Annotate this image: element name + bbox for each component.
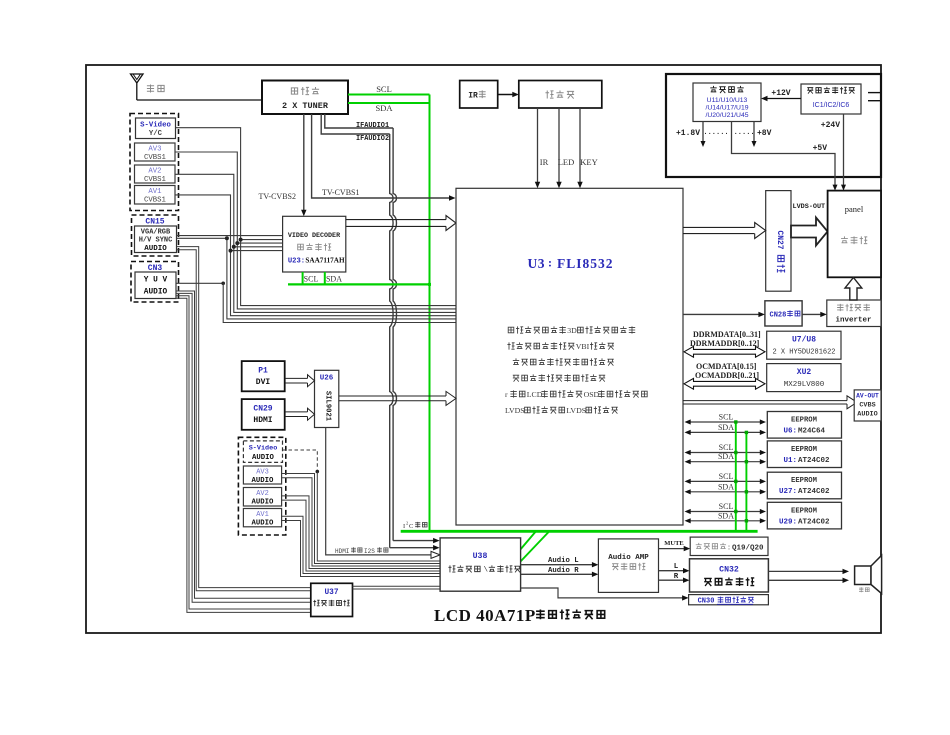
receiver U26 SIL9021 — [315, 370, 339, 427]
wire SCL U29: — [685, 509, 767, 514]
svg-text:AUDIO: AUDIO — [857, 411, 877, 419]
wire KEY to U3 — [577, 108, 582, 188]
label IFAUDIO2 — [356, 135, 389, 143]
svg-text:IR: IR — [540, 157, 549, 167]
U3 description line1 — [508, 326, 635, 335]
title LCD 40A71P 整机流程框图 — [434, 606, 605, 625]
svg-text:EEPROM: EEPROM — [791, 507, 817, 515]
connector CN27 LVDS — [766, 191, 791, 292]
front control board 前控板 — [519, 81, 602, 109]
svg-text:AV2: AV2 — [148, 168, 161, 176]
wire TV-CVBS1 to U3 — [312, 114, 456, 201]
wire HDMI I2S U26 to U38 — [326, 428, 440, 559]
green diagonal SCL to U38 — [521, 532, 536, 549]
wire S-Video Y/C to decoder and U3 — [176, 128, 457, 306]
label SCL U6: — [719, 413, 734, 422]
label +1.8V — [676, 129, 700, 138]
AC input stubs — [868, 93, 881, 101]
label +8V — [757, 129, 772, 138]
svg-text:Q19/Q20: Q19/Q20 — [732, 545, 764, 553]
audio input group dashed box — [238, 437, 285, 535]
svg-text:MUTE: MUTE — [664, 540, 684, 547]
svg-text:AV-OUT: AV-OUT — [856, 393, 879, 400]
label SDA U6: — [718, 423, 734, 432]
svg-text:CVBS1: CVBS1 — [144, 154, 167, 162]
label LED — [558, 157, 575, 167]
svg-text:......: ...... — [703, 129, 728, 137]
wire CN3 audio 4 to U37 — [176, 298, 311, 612]
label I2C bus — [403, 521, 427, 531]
svg-text:CN32: CN32 — [719, 566, 739, 575]
svg-text:TV-CVBS2: TV-CVBS2 — [259, 192, 297, 201]
svg-text:S-Video: S-Video — [249, 445, 278, 453]
antenna symbol 天线 — [131, 74, 165, 100]
voltage converter 电压变换 U11/U10/U13... — [693, 83, 761, 122]
svg-text:VGA/RGB: VGA/RGB — [141, 229, 171, 237]
svg-text:LVDS: LVDS — [566, 406, 586, 415]
label HDMI I2S bus — [335, 547, 388, 555]
connector CN28 插座 — [765, 301, 802, 326]
EEPROM U1 AT24C02 — [767, 441, 841, 468]
backlight inverter box — [827, 300, 881, 327]
svg-text:SCL: SCL — [719, 413, 734, 422]
svg-text:U38: U38 — [473, 552, 488, 561]
audio converter U37 音频转换器 — [311, 583, 353, 616]
svg-text:EEPROM: EEPROM — [791, 477, 817, 485]
label OCMADDR — [695, 371, 759, 380]
connector AV3 AUDIO — [243, 466, 281, 485]
IR board IR板 — [460, 81, 498, 109]
svg-text:2 X HY5DU281622: 2 X HY5DU281622 — [772, 349, 835, 357]
decoder to U3 bus arrow — [346, 216, 456, 231]
svg-text:U3: U3 — [528, 256, 546, 271]
connector AV2 AUDIO — [243, 488, 281, 507]
label +24V — [821, 121, 840, 130]
label Audio R — [548, 567, 579, 575]
connector AV1 CVBS1 — [135, 186, 176, 205]
svg-text:U23:: U23: — [288, 258, 305, 266]
label KEY — [580, 157, 597, 167]
wire +8V out — [752, 122, 757, 148]
connector S-Video AUDIO (dashed) — [243, 441, 282, 463]
connector CN3 YUV AUDIO — [135, 272, 176, 299]
connector AV1 AUDIO — [243, 509, 281, 528]
label +5V — [813, 144, 828, 153]
wire AV2 audio R to U38 — [282, 500, 441, 571]
inverter to panel hollow arrow — [845, 278, 862, 301]
svg-text:3D: 3D — [567, 326, 577, 335]
svg-text:SCL: SCL — [304, 275, 319, 284]
label OCMDATA — [696, 362, 757, 371]
svg-text:+5V: +5V — [813, 144, 828, 153]
svg-text:AT24C02: AT24C02 — [798, 488, 830, 496]
svg-text:AUDIO: AUDIO — [144, 245, 167, 253]
svg-text:TV-CVBS1: TV-CVBS1 — [322, 188, 360, 197]
svg-text:LCD: LCD — [527, 390, 543, 399]
U3 description line6 — [505, 406, 618, 415]
label SDA — [375, 103, 393, 113]
svg-text:CVBS1: CVBS1 — [144, 176, 167, 184]
svg-text:SIL9021: SIL9021 — [324, 391, 332, 422]
label SDA U1: — [718, 452, 734, 461]
svg-text:+12V: +12V — [771, 89, 790, 98]
video decoder U23 SAA7117AH — [283, 216, 346, 272]
wire AV1 audio R to U38 — [282, 521, 441, 577]
EEPROM U27 AT24C02 — [767, 472, 841, 499]
svg-text:DDRMADDR[0..12]: DDRMADDR[0..12] — [690, 339, 760, 348]
svg-text:MX29LV800: MX29LV800 — [784, 381, 825, 389]
svg-text:U29:: U29: — [779, 518, 797, 526]
svg-text:CN27: CN27 — [775, 230, 784, 249]
I2C bus horizontal (green) — [401, 530, 758, 533]
label TV-CVBS1 — [322, 188, 360, 197]
svg-text:AT24C02: AT24C02 — [798, 518, 830, 526]
svg-text:C: C — [409, 523, 413, 530]
wire CN15 VGA to decoder and U3 — [177, 236, 457, 319]
wire Audio L — [521, 562, 599, 567]
svg-text:/U14/U17/U19: /U14/U17/U19 — [705, 105, 748, 112]
svg-text:DDRMDATA[0..31]: DDRMDATA[0..31] — [693, 330, 761, 339]
wire SDA U29: — [685, 518, 767, 523]
sound processor U38 丽音解码/音效处理 — [440, 538, 520, 591]
wire LED to U3 — [556, 108, 561, 188]
subwoofer connector CN30 重低音输出 — [689, 595, 769, 606]
green I2C SDA vertical — [745, 431, 748, 532]
svg-text:CVBS: CVBS — [859, 402, 875, 410]
flash bus double arrow — [684, 378, 765, 389]
label MUTE — [664, 540, 684, 547]
svg-text:H/V SYNC: H/V SYNC — [139, 237, 173, 245]
green I2C SCL vertical — [734, 420, 737, 531]
label U3 FLI8532 — [528, 256, 614, 272]
svg-text:AUDIO: AUDIO — [252, 520, 275, 528]
svg-text:inverter: inverter — [835, 317, 871, 325]
svg-text:U6:: U6: — [783, 428, 797, 436]
svg-text:r: r — [505, 390, 508, 399]
speaker connector CN32 扬声器插头 — [690, 559, 769, 592]
wire CN3 audio 1 to U37 — [176, 291, 311, 598]
label SDA decoder — [326, 275, 342, 284]
wire Audio R — [521, 572, 599, 577]
wire +24V to panel — [841, 114, 846, 191]
label +12V — [771, 89, 790, 98]
svg-text:FLI8532: FLI8532 — [557, 256, 614, 271]
svg-text:AUDIO: AUDIO — [252, 477, 275, 485]
svg-text:XU2: XU2 — [797, 368, 812, 377]
wire AV2 CVBS to decoder and U3 — [175, 174, 456, 312]
label SCL U1: — [719, 443, 734, 452]
svg-text:+24V: +24V — [821, 121, 840, 130]
svg-text:CN28: CN28 — [770, 312, 787, 320]
svg-text:AUDIO: AUDIO — [252, 499, 275, 507]
svg-text:KEY: KEY — [580, 157, 597, 167]
wire +1.8V out — [701, 122, 706, 148]
connector CN15 dashed box — [132, 215, 179, 256]
svg-text:LVDS-OUT: LVDS-OUT — [793, 203, 826, 211]
connector AV-OUT CVBS AUDIO — [854, 390, 881, 421]
svg-text:LVDS: LVDS — [505, 406, 525, 415]
svg-text:U11/U10/U13: U11/U10/U13 — [707, 97, 748, 104]
connector CN29 HDMI — [242, 399, 285, 430]
svg-text:SCL: SCL — [719, 443, 734, 452]
wire CN3 YUV to U3 — [176, 282, 456, 323]
U3 description line2 — [507, 342, 614, 351]
svg-text::: : — [548, 256, 552, 270]
decoder SCL stub — [302, 272, 304, 284]
svg-text:IC1/IC2/IC6: IC1/IC2/IC6 — [813, 102, 850, 109]
arrow IR板 to 前控板 — [498, 92, 519, 97]
connector AV2 CVBS1 — [135, 165, 176, 184]
wire +12V — [761, 96, 801, 101]
wire MUTE — [659, 546, 691, 551]
svg-text:HDMI: HDMI — [253, 416, 272, 425]
svg-text:panel: panel — [845, 204, 864, 214]
AV-OUT bus arrow — [683, 396, 857, 409]
svg-text:AV3: AV3 — [148, 146, 161, 154]
connector CN3 dashed box — [131, 262, 179, 303]
svg-text:2 X TUNER: 2 X TUNER — [282, 101, 329, 111]
wire AV3 CVBS to decoder and U3 — [175, 152, 456, 309]
svg-text:U26: U26 — [320, 375, 334, 383]
svg-text:SDA: SDA — [718, 482, 734, 491]
wire IFAUDIO1 tuner to U38 — [325, 114, 440, 543]
speaker 喇叭 — [855, 555, 882, 593]
svg-text:AT24C02: AT24C02 — [798, 457, 830, 465]
label R — [674, 573, 679, 581]
svg-text:P1: P1 — [258, 367, 268, 376]
svg-text:IFAUDIO2: IFAUDIO2 — [356, 135, 389, 143]
svg-text:U37: U37 — [324, 589, 338, 597]
wire AV1 audio L to U38 — [282, 516, 441, 573]
svg-text:SDA: SDA — [375, 103, 393, 113]
svg-text:CVBS1: CVBS1 — [144, 196, 167, 204]
wires CN32 to speaker — [768, 569, 849, 583]
wire SCL U6: — [685, 419, 767, 424]
svg-text:HDMI: HDMI — [335, 548, 349, 555]
svg-text:LED: LED — [558, 157, 575, 167]
wire +5V to panel — [732, 122, 838, 191]
U3 to CN27 bus arrow — [683, 223, 766, 239]
wire SDA U1: — [685, 459, 767, 464]
wire IR to U3 — [535, 108, 540, 188]
connector CN15 VGA/RGB H/V SYNC AUDIO — [135, 226, 177, 253]
EEPROM U29 AT24C02 — [767, 502, 841, 529]
CN27 to panel big arrow — [791, 218, 828, 246]
dotted rail — [703, 129, 754, 137]
switching power supply 开关稳压电源 IC1/IC2/IC6 — [801, 84, 861, 114]
svg-text:\: \ — [484, 567, 489, 575]
wire SDA (tuner I2C) — [348, 102, 430, 104]
svg-text:AV1: AV1 — [256, 511, 269, 519]
svg-text:OSD: OSD — [584, 390, 600, 399]
label DDRMADDR — [690, 339, 760, 348]
label SDA U29: — [718, 511, 734, 520]
svg-text:I2S: I2S — [364, 548, 375, 555]
U3 to CN28 arrow — [683, 312, 765, 317]
svg-text:CN15: CN15 — [145, 218, 164, 227]
svg-text:U1:: U1: — [783, 457, 797, 465]
label IR — [540, 157, 549, 167]
wire CN15 audio R to U37 — [177, 250, 311, 591]
svg-text:SDA: SDA — [718, 511, 734, 520]
wire CN15 audio L to U37 — [177, 247, 311, 588]
label SCL U27: — [719, 472, 734, 481]
wire SCL (tuner I2C) — [348, 94, 430, 96]
wire SCL U1: — [685, 450, 767, 455]
svg-text::: : — [727, 545, 732, 553]
svg-text:/U20/U21/U45: /U20/U21/U45 — [705, 112, 748, 119]
svg-text:OCMDATA[0.15]: OCMDATA[0.15] — [696, 362, 757, 371]
main chip U3 FLI8532 box — [456, 188, 683, 525]
wire L to CN32 — [659, 568, 690, 573]
svg-text:L: L — [674, 563, 679, 571]
tuner board 高频板 2 X TUNER — [262, 81, 348, 115]
U3 description line3 — [513, 358, 614, 365]
CN28 to inverter arrow — [802, 312, 827, 317]
label SCL — [376, 84, 392, 94]
wire SDA U27: — [685, 489, 767, 494]
svg-text:SAA7117AH: SAA7117AH — [305, 257, 345, 265]
svg-text:VBI: VBI — [576, 342, 590, 351]
svg-text:IR: IR — [468, 92, 478, 101]
wire subwoofer U38 to CN30 — [521, 588, 689, 601]
svg-text:Audio R: Audio R — [548, 567, 579, 575]
svg-text:CN30: CN30 — [698, 598, 715, 606]
label DDRMDATA — [693, 330, 761, 339]
I2C bus vertical (green) — [429, 95, 431, 532]
memory U7/U8 2 X HY5DU281622 — [767, 331, 841, 359]
svg-text:SDA: SDA — [326, 275, 342, 284]
svg-text:EEPROM: EEPROM — [791, 446, 817, 454]
decoder SDA stub — [324, 272, 326, 284]
flash XU2 MX29LV800 — [767, 364, 841, 392]
svg-text:U7/U8: U7/U8 — [792, 336, 816, 345]
svg-text:AUDIO: AUDIO — [252, 454, 275, 462]
wire CN3 audio 3 to U37 — [176, 296, 311, 609]
P1 to U26 bus arrow — [285, 375, 315, 387]
svg-text:LCD 40A71P: LCD 40A71P — [434, 606, 536, 625]
wire AV1 CVBS to decoder and U3 — [175, 195, 456, 316]
svg-text:DVI: DVI — [256, 378, 271, 387]
svg-text:+1.8V: +1.8V — [676, 129, 700, 138]
connector S-Video Y/C — [136, 118, 176, 139]
label TV-CVBS2 — [259, 192, 297, 201]
svg-text:Y/C: Y/C — [149, 130, 163, 138]
U3 description line4 — [513, 374, 605, 381]
svg-text:Y U V: Y U V — [144, 277, 168, 285]
svg-text:M24C64: M24C64 — [798, 428, 826, 436]
dashed wire S-Video audio — [283, 450, 320, 473]
EEPROM U6 M24C64 — [767, 412, 841, 439]
CN29 to U26 bus arrow — [285, 408, 315, 420]
svg-text:IFAUDIO1: IFAUDIO1 — [356, 122, 389, 130]
svg-text:AV3: AV3 — [256, 469, 269, 477]
svg-text:OCMADDR[0..21]: OCMADDR[0..21] — [695, 371, 759, 380]
mute circuit 静音电路 Q19/Q20 — [690, 537, 768, 555]
wire S-Video audio to U38 — [317, 472, 440, 562]
label SDA U27: — [718, 482, 734, 491]
wire R to CN32 — [659, 578, 690, 583]
label LVDS-OUT — [793, 203, 826, 211]
wire SCL U27: — [685, 479, 767, 484]
panel 显示屏 box — [828, 191, 881, 278]
svg-text:SDA: SDA — [718, 452, 734, 461]
U26 to U3 bus arrow — [339, 391, 456, 405]
svg-text:2: 2 — [406, 521, 408, 526]
green diagonal SDA to U38 — [521, 532, 549, 562]
svg-text:U27:: U27: — [779, 488, 797, 496]
svg-text:AV1: AV1 — [148, 188, 162, 196]
svg-text:S-Video: S-Video — [140, 122, 171, 130]
svg-text:CN29: CN29 — [253, 405, 272, 414]
connector AV3 CVBS1 — [135, 143, 176, 162]
decoder I2C horizontal — [288, 283, 431, 286]
svg-text:AV2: AV2 — [256, 490, 269, 498]
wire TV-CVBS2 to decoder — [301, 114, 306, 216]
amplifier Audio AMP 伴音功放 — [598, 539, 658, 593]
label IFAUDIO1 — [356, 122, 389, 130]
svg-text:SDA: SDA — [718, 423, 734, 432]
diagram border frame — [86, 65, 881, 633]
wire AV3 audio L to U38 — [282, 474, 441, 564]
svg-text:SCL: SCL — [376, 84, 392, 94]
connector P1 DVI — [242, 361, 285, 391]
wire antenna to tuner — [137, 99, 262, 101]
power section box — [666, 74, 881, 177]
svg-text:I: I — [403, 523, 405, 530]
wire CN3 audio 2 to U37 — [176, 293, 311, 602]
svg-text:Audio AMP: Audio AMP — [608, 554, 649, 562]
wires U37 to U38 — [353, 586, 441, 589]
DDR bus double arrow — [684, 346, 765, 357]
wire AV2 audio L to U38 — [282, 496, 441, 569]
label Audio L — [548, 557, 579, 565]
label L — [674, 563, 679, 571]
svg-text:EEPROM: EEPROM — [791, 417, 817, 425]
svg-text:......: ...... — [729, 129, 754, 137]
svg-text:VIDEO DECODER: VIDEO DECODER — [288, 232, 340, 240]
wire AV3 audio R to U38 — [282, 478, 441, 566]
U3 description line5 — [505, 390, 647, 399]
svg-text:SCL: SCL — [719, 502, 734, 511]
svg-text:SCL: SCL — [719, 472, 734, 481]
svg-text:+8V: +8V — [757, 129, 772, 138]
wire IFAUDIO2 tuner to U38 — [321, 114, 439, 550]
svg-text:Audio L: Audio L — [548, 557, 579, 565]
label SCL U29: — [719, 502, 734, 511]
wire SDA U6: — [685, 430, 767, 435]
label SCL decoder — [304, 275, 319, 284]
AV input group dashed box — [130, 114, 179, 211]
svg-text:AUDIO: AUDIO — [144, 289, 168, 297]
svg-text:R: R — [674, 573, 679, 581]
